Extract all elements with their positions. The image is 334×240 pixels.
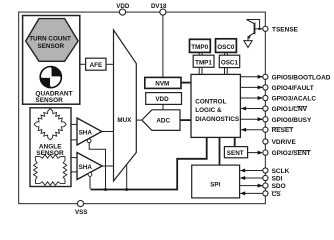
svg-text:GPIO0/BUSY: GPIO0/BUSY <box>272 117 312 124</box>
svg-text:CS: CS <box>272 191 282 198</box>
svg-text:SPI: SPI <box>210 182 220 189</box>
svg-text:VDRIVE: VDRIVE <box>272 139 297 146</box>
svg-text:SENT: SENT <box>227 150 244 157</box>
svg-text:VSS: VSS <box>75 209 87 215</box>
svg-text:OSC1: OSC1 <box>221 60 239 67</box>
svg-text:SENSOR: SENSOR <box>35 97 63 104</box>
svg-text:DV18: DV18 <box>151 3 167 10</box>
svg-text:TMP0: TMP0 <box>191 44 208 51</box>
svg-text:GPIO4/FAULT: GPIO4/FAULT <box>272 85 314 92</box>
svg-text:OSC0: OSC0 <box>217 44 235 51</box>
svg-text:GPIO2/SENT: GPIO2/SENT <box>272 150 311 157</box>
svg-text:SDO: SDO <box>272 183 286 190</box>
svg-text:VDD: VDD <box>155 96 169 103</box>
svg-text:SCLK: SCLK <box>272 168 290 175</box>
svg-text:CONTROL: CONTROL <box>195 99 226 106</box>
svg-text:TSENSE: TSENSE <box>272 26 299 33</box>
svg-text:TURN COUNT: TURN COUNT <box>29 36 71 43</box>
svg-text:AFE: AFE <box>90 62 103 69</box>
svg-text:LOGIC &: LOGIC & <box>195 107 222 114</box>
svg-text:ADC: ADC <box>156 117 170 124</box>
svg-text:GPIO3/ACALC: GPIO3/ACALC <box>272 96 317 103</box>
svg-text:NVM: NVM <box>155 80 169 87</box>
svg-text:SDI: SDI <box>272 176 283 183</box>
svg-text:GPIO1/CNV: GPIO1/CNV <box>272 106 308 113</box>
svg-text:SENSOR: SENSOR <box>36 150 64 157</box>
svg-text:GPIO5/BOOTLOAD: GPIO5/BOOTLOAD <box>272 74 331 81</box>
svg-text:RESET: RESET <box>272 127 294 134</box>
svg-text:TMP1: TMP1 <box>195 60 212 67</box>
svg-text:MUX: MUX <box>117 117 132 124</box>
svg-text:SHA: SHA <box>79 130 93 137</box>
svg-text:DIAGNOSTICS: DIAGNOSTICS <box>195 116 239 123</box>
svg-text:SHA: SHA <box>79 164 93 171</box>
svg-text:VDD: VDD <box>116 3 130 10</box>
svg-text:SENSOR: SENSOR <box>38 43 65 50</box>
